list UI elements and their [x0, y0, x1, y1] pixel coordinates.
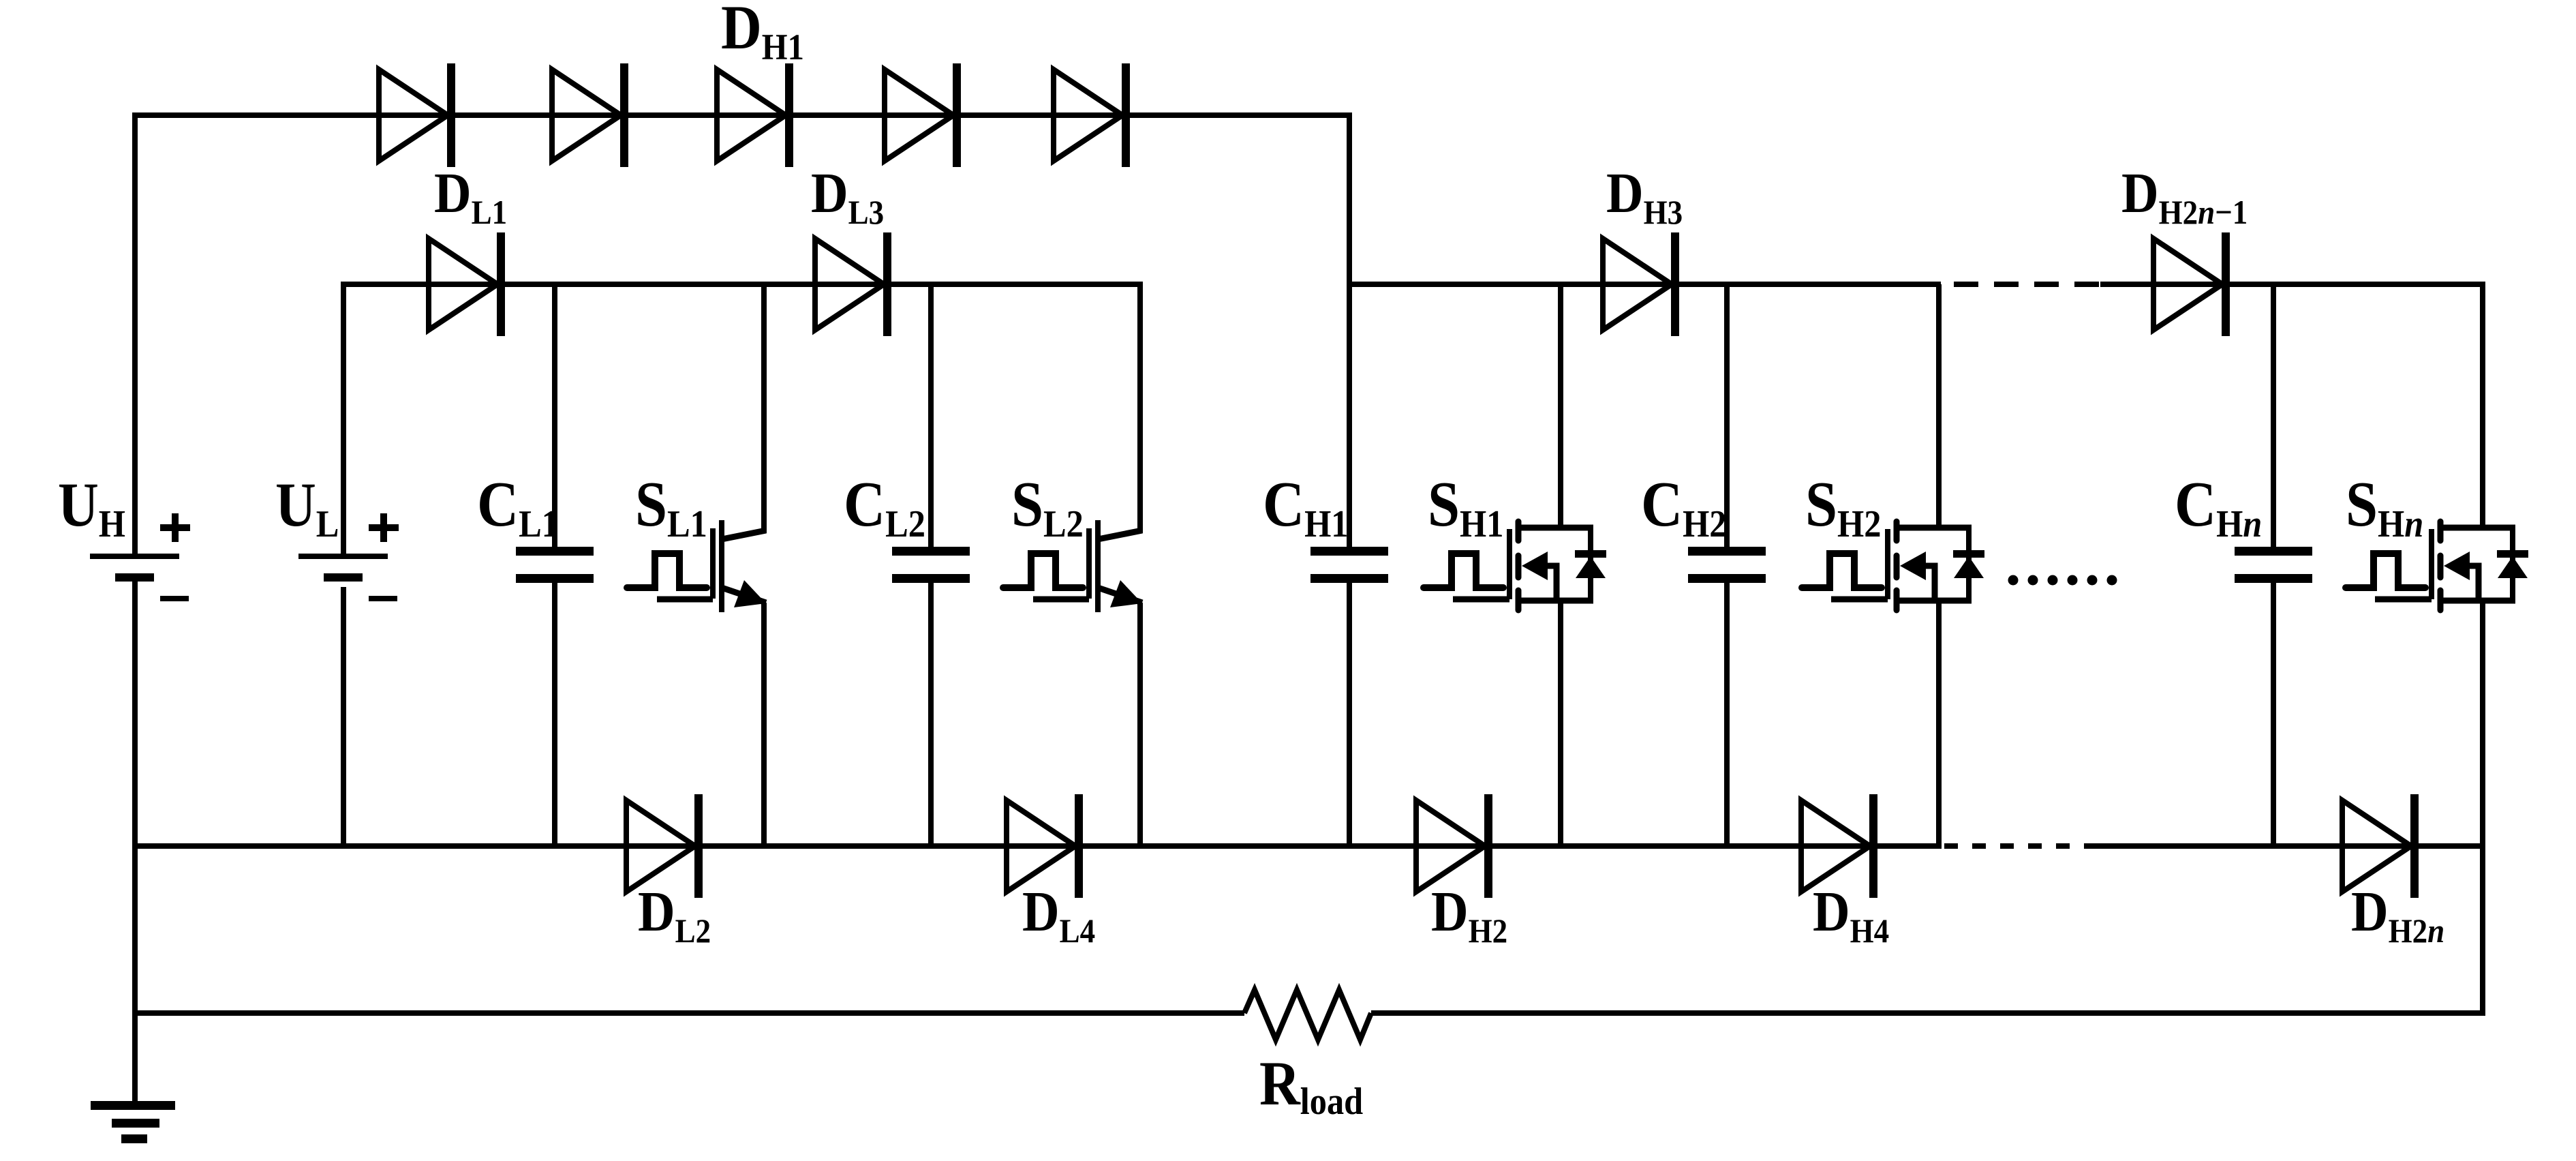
- ground bar 2: [112, 1119, 159, 1128]
- transistor SHn (MOSFET): [2480, 284, 2485, 530]
- diode DL4: [1007, 800, 1075, 892]
- diode DH3: [1603, 239, 1672, 330]
- transistor SL1 (IGBT): [761, 284, 767, 533]
- wire UL vertical top: [341, 282, 346, 556]
- diode DH2n: [2342, 800, 2411, 892]
- transistor SH1 (MOSFET): [1558, 284, 1563, 530]
- wire CH2 top: [1724, 282, 1730, 547]
- capacitor CH2: [1688, 547, 1766, 556]
- wire H-rail solid right: [2100, 282, 2485, 287]
- wire CL1 bottom: [552, 583, 557, 849]
- resistor Rload: [1244, 990, 1371, 1040]
- wire CH2 bottom: [1724, 583, 1730, 849]
- wire bottom rail solid right: [2089, 843, 2483, 849]
- wire CHn bottom: [2271, 583, 2276, 849]
- diode DH1 chain 2 (DH1): [552, 70, 621, 161]
- wire bottom rail dashed: [1944, 843, 2089, 849]
- ground bar 3: [121, 1134, 147, 1143]
- wire CL2 bottom: [928, 583, 934, 849]
- wire CHn top: [2271, 282, 2276, 547]
- wire UH bottom: [132, 582, 138, 1103]
- plus UH: [160, 524, 190, 531]
- wire H-rail dashed: [1954, 282, 2100, 287]
- diode DH1 chain 5: [1054, 70, 1122, 161]
- minus UL: [369, 596, 397, 601]
- capacitor CL1: [516, 547, 594, 556]
- wire UL bottom: [341, 587, 346, 849]
- transistor SL2 (IGBT): [1137, 284, 1143, 533]
- transistor SH2 (MOSFET): [1936, 284, 1942, 530]
- diode DH2: [1416, 800, 1485, 892]
- diode DH1 chain 1: [379, 70, 448, 161]
- diode DH4: [1801, 800, 1870, 892]
- wire CH1 top: [1347, 284, 1352, 547]
- wire L-rail: [343, 282, 1143, 287]
- plus UL: [369, 524, 399, 531]
- ellipsis dots: [2008, 575, 2019, 586]
- wire CL2 top: [928, 282, 934, 547]
- diode DH1 chain 4: [885, 70, 953, 161]
- wire load rail right: [1371, 1010, 2485, 1016]
- minus UH: [160, 596, 189, 601]
- diode DL2: [626, 800, 695, 892]
- wire top rail: [132, 112, 1352, 118]
- capacitor CHn: [2235, 547, 2312, 556]
- diode DH2n-1: [2153, 239, 2222, 330]
- battery UL: [298, 554, 388, 559]
- capacitor CL2: [892, 547, 970, 556]
- diode DL3: [815, 239, 884, 330]
- ground bar 1: [91, 1101, 175, 1110]
- wire CL1 top: [552, 282, 557, 547]
- wire load rail left: [132, 1010, 1244, 1016]
- diode DH1 chain 3: [717, 70, 786, 161]
- wire top-right corner vertical: [1347, 112, 1352, 287]
- battery UH: [90, 554, 179, 559]
- wire left vertical (UH branch): [132, 112, 138, 556]
- diode DL1: [429, 239, 497, 330]
- capacitor CH1: [1310, 547, 1388, 556]
- wire H-rail solid left: [1349, 282, 1941, 287]
- wire right edge vertical: [2480, 846, 2485, 1016]
- wire bottom rail solid left: [135, 843, 1942, 849]
- wire CH1 bottom: [1347, 583, 1352, 849]
